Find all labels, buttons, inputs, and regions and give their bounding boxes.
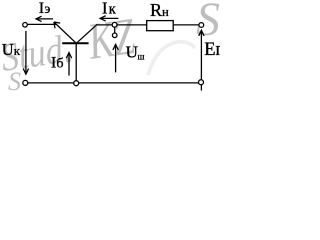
current arrow Iб — [66, 53, 71, 76]
wire: base — [75, 43, 77, 80]
svg-text:S: S — [8, 67, 21, 95]
current arrow Iк — [100, 16, 118, 21]
wire: bottom rail — [28, 82, 199, 84]
svg-text:Rн: Rн — [150, 0, 169, 20]
svg-text:Eп: Eп — [204, 40, 220, 60]
svg-text:Iк: Iк — [102, 0, 117, 18]
voltage arrow Uк — [23, 31, 28, 74]
current arrow Iэ — [36, 16, 53, 21]
svg-text:Iэ: Iэ — [39, 0, 51, 17]
wire: emitter input — [27, 23, 56, 25]
terminal: input bottom-left — [23, 80, 28, 85]
terminal: output top-right — [199, 23, 204, 28]
svg-text:Iб: Iб — [51, 55, 63, 72]
svg-text:Uш: Uш — [126, 43, 145, 62]
svg-text:Uк: Uк — [2, 40, 21, 59]
transistor VT1 — [54, 22, 97, 43]
node: base junction — [74, 81, 79, 86]
terminal: Uш tap — [112, 27, 117, 37]
resistor Rн — [147, 21, 174, 31]
node: collector tap junction — [112, 22, 117, 27]
emf arrow Eп — [199, 30, 204, 90]
voltage arrow Uш — [113, 44, 118, 72]
wire: resistor to output terminal — [173, 24, 199, 26]
wire: collector to resistor — [97, 24, 147, 26]
terminal: input top-left — [23, 23, 28, 28]
node: supply junction bottom-right — [199, 80, 204, 85]
